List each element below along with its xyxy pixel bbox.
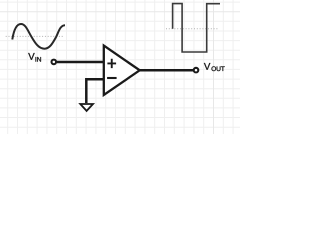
wire: op-amp - input to ground [86,79,104,103]
wire: input terminal to op-amp + [57,61,104,64]
label VIN [28,53,41,62]
op-amp - pin mark [107,77,117,79]
sine wave (input annotation) [12,24,65,49]
input terminal [52,60,57,65]
label VOUT [204,63,225,71]
dotted centerline (input waveform) [6,35,65,37]
op-amp U1 [104,46,140,95]
op-amp + pin mark [107,59,116,68]
square wave (output annotation) [173,4,220,52]
ground [80,104,93,111]
dotted centerline (output waveform) [166,28,218,30]
output terminal [194,68,199,73]
wire: op-amp output to terminal [140,69,194,72]
